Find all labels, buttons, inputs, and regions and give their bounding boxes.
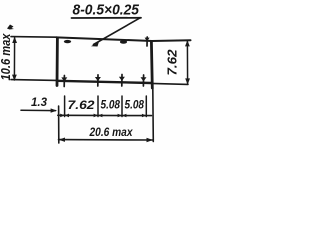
svg-text:8-0.5×0.25: 8-0.5×0.25 [73, 2, 140, 19]
svg-text:7.62: 7.62 [68, 98, 95, 112]
svg-text:5.08: 5.08 [125, 100, 145, 112]
svg-text:7.62: 7.62 [165, 49, 180, 76]
svg-text:5.08: 5.08 [101, 100, 121, 112]
svg-text:20.6 max: 20.6 max [89, 125, 134, 139]
svg-text:10.6 max: 10.6 max [0, 33, 13, 81]
svg-text:1.3: 1.3 [31, 95, 47, 109]
